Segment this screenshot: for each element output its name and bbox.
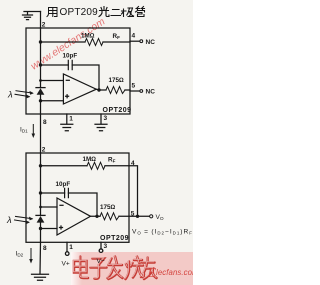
photodiode D1 (36, 88, 45, 101)
svg-text:lecfans.com: lecfans.com (156, 268, 193, 277)
ground pin1 U1 (61, 124, 73, 130)
ground bottom U2 (32, 274, 49, 280)
banner logo 电子发烧友 (74, 257, 157, 280)
极 (122, 8, 134, 17)
svg-text:OPT209: OPT209 (60, 7, 99, 18)
svg-text:V−: V− (97, 258, 105, 265)
svg-text:10pF: 10pF (63, 53, 78, 60)
OPT209 package box U2 (26, 153, 129, 242)
external feedback wire pin4 to output (129, 166, 138, 217)
光 (99, 7, 109, 17)
pin 5 output stub (129, 215, 149, 217)
svg-text:1: 1 (69, 116, 73, 123)
pin 8 wire down U2 (39, 229, 42, 274)
NC terminal circle pin4 (140, 40, 143, 43)
pin 5 NC stub (130, 90, 140, 92)
svg-text:λ: λ (7, 90, 13, 101)
svg-text:3: 3 (104, 243, 108, 250)
svg-text:1: 1 (69, 244, 73, 251)
light arrows D2 (15, 216, 34, 224)
svg-text:OPT209: OPT209 (100, 235, 129, 242)
NC terminal circle pin5 (140, 90, 143, 93)
light arrows D1 (15, 91, 34, 99)
OPT209 package box U1 (26, 28, 130, 114)
wire non-inverting input U2A (41, 228, 58, 230)
svg-text:VO = (ID2−ID1)RF: VO = (ID2−ID1)RF (132, 229, 193, 236)
wire pin2 top (40, 12, 42, 29)
watermark www.elecfans.com (red diagonal) (29, 16, 107, 72)
svg-text:NC: NC (146, 89, 156, 96)
wire inverting input U2A (41, 206, 58, 208)
V+ terminal circle (65, 252, 69, 256)
node dots U2 (39, 164, 139, 230)
resistor 175Ω U1 zigzag (106, 87, 125, 94)
发 (108, 257, 123, 280)
svg-text:175Ω: 175Ω (100, 204, 116, 211)
op-amp U2A (57, 198, 91, 235)
电 (74, 257, 88, 279)
svg-text:λ: λ (6, 215, 12, 226)
capacitor C2 plates (65, 188, 69, 197)
pin 4 NC stub (130, 40, 140, 42)
ground pin3 U1 (95, 124, 107, 130)
output wire U1A with R 175 (96, 88, 130, 91)
svg-text:1MΩ: 1MΩ (83, 156, 97, 163)
minus sign U1A (66, 79, 69, 81)
svg-text:3: 3 (104, 115, 108, 122)
svg-text:RF: RF (113, 33, 121, 40)
pin 1 stub U1 (66, 114, 68, 124)
op-amp U1A (63, 74, 96, 104)
V- terminal circle (99, 249, 103, 253)
output wire U2A with R 175 (91, 215, 130, 217)
minus sign U2A (60, 204, 63, 206)
capacitor C1 wires (41, 65, 100, 90)
wire inverting node vertical U2 (40, 153, 42, 215)
svg-text:RF: RF (108, 157, 116, 164)
title: 用 OPT209 光二极管 (47, 7, 145, 19)
svg-text:ID1: ID1 (20, 127, 28, 134)
resistor RF2 1MΩ zigzag (87, 162, 105, 169)
wire: inverting node vertical (40, 28, 42, 88)
svg-text:10pF: 10pF (56, 181, 71, 188)
wire anode down / pin 8 (40, 101, 42, 153)
ground top-left (23, 12, 41, 20)
pin 3 stub U2 (100, 242, 102, 248)
svg-text:1MΩ: 1MΩ (81, 33, 95, 40)
wire inverting input U1A (41, 80, 64, 82)
svg-text:175Ω: 175Ω (109, 77, 125, 84)
Vo terminal circle (150, 215, 153, 218)
svg-text:8: 8 (43, 119, 47, 126)
resistor RF1 wire (41, 41, 131, 43)
plus sign U2A (60, 226, 63, 229)
svg-text:4: 4 (132, 33, 136, 40)
svg-text:E: E (147, 266, 157, 281)
二 (111, 10, 121, 16)
svg-text:V+: V+ (62, 261, 70, 268)
label V- repaint over banner (99, 249, 103, 253)
烧 (126, 257, 145, 280)
resistor 175Ω U2 zigzag (100, 213, 119, 220)
svg-text:NC: NC (146, 39, 156, 46)
子 (91, 259, 107, 279)
resistor RF1 1MΩ zigzag (85, 39, 103, 46)
capacitor C1 plates (68, 60, 72, 69)
node dots U1 (39, 40, 101, 102)
pin 3 stub U1 (100, 114, 102, 124)
管 (136, 7, 145, 17)
current arrow ID2 (29, 249, 33, 264)
capacitor C2 wires (41, 193, 98, 216)
友 (141, 258, 157, 280)
svg-text:5: 5 (132, 83, 136, 90)
pin 1 stub U2 (66, 242, 68, 251)
resistor RF2 wire (41, 165, 130, 167)
svg-text:8: 8 (43, 245, 47, 252)
plus sign U1A (66, 95, 69, 98)
banner background (71, 252, 193, 285)
current arrow ID1 (32, 125, 36, 139)
svg-text:OPT209: OPT209 (103, 107, 132, 114)
svg-text:VO: VO (156, 214, 164, 222)
用 (47, 8, 57, 17)
wire non-inverting input U1A (41, 100, 64, 102)
svg-text:ID2: ID2 (16, 251, 24, 258)
photodiode D2 (36, 215, 45, 228)
